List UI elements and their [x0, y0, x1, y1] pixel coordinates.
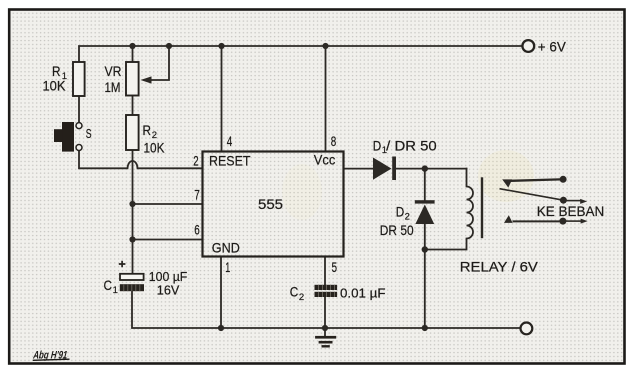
svg-text:DR 50: DR 50 [380, 222, 414, 238]
svg-text:4: 4 [227, 133, 233, 149]
svg-text:1: 1 [225, 259, 230, 275]
svg-text:16V: 16V [157, 282, 180, 297]
svg-text:D: D [373, 137, 382, 153]
svg-text:RELAY / 6V: RELAY / 6V [460, 259, 539, 275]
svg-text:8: 8 [331, 133, 337, 149]
svg-text:Vcc: Vcc [314, 152, 336, 168]
svg-text:6: 6 [194, 222, 200, 238]
svg-text:KE BEBAN: KE BEBAN [537, 203, 605, 219]
svg-text:10K: 10K [144, 140, 166, 156]
svg-text:D: D [396, 204, 405, 220]
svg-text:5: 5 [332, 259, 338, 275]
svg-text:VR: VR [105, 63, 122, 79]
svg-text:+ 6V: + 6V [538, 38, 567, 54]
svg-text:/ DR 50: / DR 50 [386, 137, 437, 153]
svg-text:1: 1 [113, 285, 118, 296]
svg-text:C: C [104, 277, 113, 293]
svg-text:GND: GND [212, 240, 240, 256]
svg-text:0.01 µF: 0.01 µF [340, 286, 386, 301]
svg-text:10K: 10K [43, 78, 67, 94]
svg-text:RESET: RESET [209, 152, 251, 168]
svg-text:R: R [143, 122, 152, 138]
svg-text:2: 2 [193, 152, 199, 168]
svg-text:S: S [86, 126, 92, 141]
svg-text:C: C [290, 284, 299, 300]
svg-text:2: 2 [299, 292, 304, 303]
svg-text:7: 7 [194, 186, 200, 202]
svg-text:555: 555 [258, 196, 283, 212]
svg-text:1M: 1M [105, 79, 121, 95]
